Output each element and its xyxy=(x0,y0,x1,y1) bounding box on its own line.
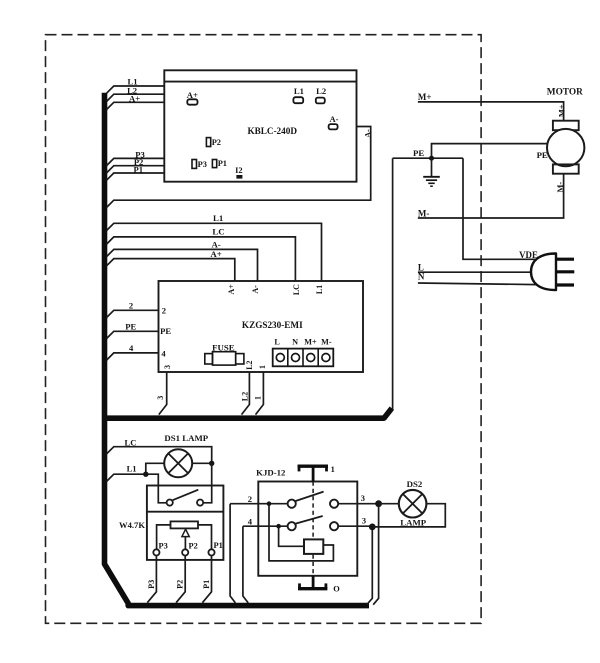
svg-text:A-: A- xyxy=(211,239,220,249)
svg-text:DS1 LAMP: DS1 LAMP xyxy=(164,433,208,443)
svg-text:L1: L1 xyxy=(213,213,223,223)
svg-text:A+: A+ xyxy=(227,284,236,295)
svg-text:KZGS230-EMI: KZGS230-EMI xyxy=(242,320,303,330)
svg-text:L: L xyxy=(274,338,280,347)
svg-text:N: N xyxy=(292,338,298,347)
svg-text:LC: LC xyxy=(125,437,137,447)
svg-text:P2: P2 xyxy=(212,138,221,147)
svg-text:M-: M- xyxy=(418,209,430,219)
svg-text:LAMP: LAMP xyxy=(400,517,427,527)
svg-text:P1: P1 xyxy=(218,159,227,168)
svg-text:3: 3 xyxy=(362,517,366,526)
svg-text:A-: A- xyxy=(251,285,260,294)
svg-text:4: 4 xyxy=(248,516,253,526)
svg-text:M+: M+ xyxy=(304,338,317,347)
svg-text:P1: P1 xyxy=(214,541,223,550)
svg-text:P3: P3 xyxy=(159,541,168,550)
svg-text:PE: PE xyxy=(125,322,136,332)
svg-text:4: 4 xyxy=(161,348,166,358)
svg-text:4: 4 xyxy=(129,343,134,353)
svg-text:A-: A- xyxy=(329,114,338,124)
svg-text:L1: L1 xyxy=(294,86,304,96)
svg-text:2: 2 xyxy=(248,494,252,504)
svg-text:A+: A+ xyxy=(210,249,221,259)
svg-text:L1: L1 xyxy=(315,285,324,294)
svg-text:3: 3 xyxy=(163,365,172,369)
svg-text:2: 2 xyxy=(129,300,133,310)
svg-text:PE: PE xyxy=(160,326,171,336)
svg-text:P1: P1 xyxy=(202,580,211,589)
svg-text:P2: P2 xyxy=(189,541,198,550)
svg-text:1: 1 xyxy=(253,396,262,400)
svg-text:KJD-12: KJD-12 xyxy=(256,468,286,478)
svg-text:A+: A+ xyxy=(129,94,140,104)
svg-text:O: O xyxy=(333,584,340,593)
svg-text:PE: PE xyxy=(537,150,548,160)
svg-text:P1: P1 xyxy=(134,164,144,174)
svg-text:1: 1 xyxy=(258,365,267,369)
svg-text:L2: L2 xyxy=(316,86,326,96)
svg-text:PE: PE xyxy=(413,148,424,158)
svg-text:N: N xyxy=(418,272,425,282)
svg-text:M+: M+ xyxy=(418,92,432,102)
svg-text:A-: A- xyxy=(363,129,372,138)
svg-text:L1: L1 xyxy=(127,464,137,474)
svg-text:DS2: DS2 xyxy=(407,479,423,489)
svg-text:M-: M- xyxy=(321,338,332,347)
svg-text:MOTOR: MOTOR xyxy=(547,87,583,97)
svg-text:L2: L2 xyxy=(245,360,254,369)
svg-text:3: 3 xyxy=(361,494,365,503)
svg-text:M+: M+ xyxy=(557,104,566,117)
svg-text:1: 1 xyxy=(331,465,335,474)
svg-text:P3: P3 xyxy=(198,160,207,169)
svg-text:LC: LC xyxy=(292,284,301,295)
svg-text:L2: L2 xyxy=(240,392,249,401)
svg-text:I2: I2 xyxy=(235,166,242,175)
svg-text:3: 3 xyxy=(156,396,165,400)
svg-text:P3: P3 xyxy=(147,580,156,589)
svg-text:KBLC-240D: KBLC-240D xyxy=(247,126,297,136)
svg-text:LC: LC xyxy=(212,227,224,237)
svg-text:2: 2 xyxy=(162,305,166,315)
svg-text:W4.7K: W4.7K xyxy=(119,520,145,530)
svg-text:P2: P2 xyxy=(176,580,185,589)
